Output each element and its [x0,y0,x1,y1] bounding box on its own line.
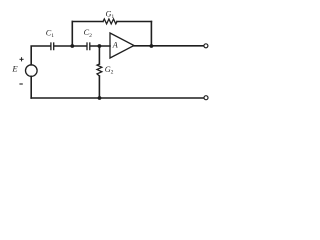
wire: C1 to C2 [54,45,86,47]
svg-text:E: E [11,64,18,74]
wire: source top to C1 [31,46,50,65]
svg-text:A: A [112,40,119,49]
terminal: output bottom [204,96,208,100]
node A: C1/C2/feedback junction [70,44,74,48]
wire: feedback left vertical [71,22,73,47]
label - (source polarity) [19,83,22,85]
terminal: output top [204,44,208,48]
wire: bottom rail [31,97,204,99]
node C: output/feedback junction [150,44,154,48]
wire: C2 to op-amp [90,45,110,47]
wire: top run left of G1 [72,21,103,23]
voltage source E [26,65,38,77]
wire: op-amp output to terminal [134,45,204,47]
svg-text:G2: G2 [105,65,114,76]
node B: C2/G2/op-amp junction [98,44,102,48]
node D: G2/bottom rail junction [98,96,102,100]
wire: top run right of G1 [117,21,151,23]
svg-text:C1: C1 [46,29,54,40]
op-amp U1 [110,33,134,58]
resistor G2 [97,46,102,98]
svg-text:G1: G1 [106,10,115,21]
svg-text:C2: C2 [84,28,92,39]
wire: source bottom to rail [30,76,32,98]
wire: feedback right vertical [150,22,152,47]
label + (source polarity) [20,57,24,61]
resistor G1 [103,19,117,24]
capacitor C1 [51,43,54,50]
capacitor C2 [87,43,90,50]
